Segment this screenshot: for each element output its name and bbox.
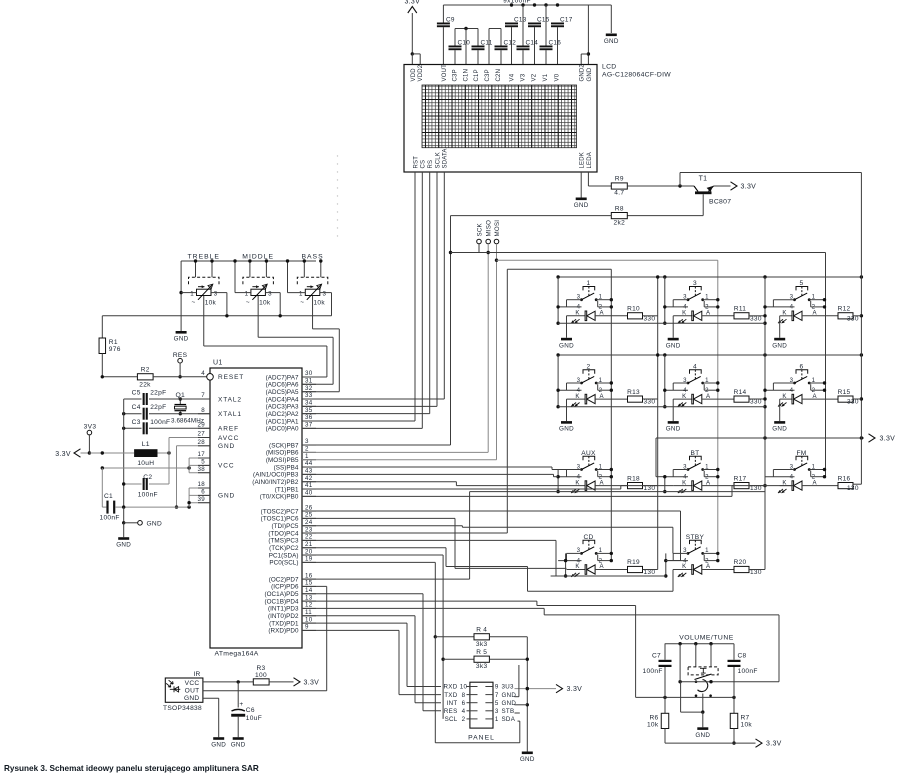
svg-text:17: 17 bbox=[198, 451, 206, 458]
transistor T1 BC807 bbox=[694, 176, 731, 216]
svg-text:TSOP34838: TSOP34838 bbox=[163, 705, 202, 712]
svg-text:30: 30 bbox=[305, 370, 313, 377]
svg-text:18: 18 bbox=[198, 481, 206, 488]
wire AVCC feed bbox=[169, 438, 210, 454]
svg-text:(MOSI)PB5: (MOSI)PB5 bbox=[266, 457, 299, 464]
wire PB7 row bbox=[302, 444, 451, 446]
svg-text:R20: R20 bbox=[734, 559, 747, 566]
ground (C1) bbox=[116, 523, 131, 549]
svg-text:C2: C2 bbox=[143, 474, 152, 481]
svg-text:Rysunek 3. Schemat ideowy pane: Rysunek 3. Schemat ideowy panelu sterują… bbox=[4, 764, 259, 773]
wire row3 left verticals bbox=[556, 438, 765, 493]
wire TREBLE pin1 to GND bbox=[179, 261, 196, 331]
svg-text:GND: GND bbox=[218, 493, 235, 500]
svg-text:~: ~ bbox=[300, 299, 304, 306]
svg-text:(AIN0/INT2)PB2: (AIN0/INT2)PB2 bbox=[252, 479, 299, 486]
svg-text:TREBLE: TREBLE bbox=[188, 253, 220, 260]
svg-text:10uF: 10uF bbox=[246, 715, 262, 722]
svg-text:976: 976 bbox=[109, 346, 121, 353]
svg-text:1: 1 bbox=[495, 716, 499, 723]
pushbutton STBY bbox=[665, 534, 720, 565]
capacitor C7 100nF bbox=[643, 644, 672, 714]
svg-text:130: 130 bbox=[644, 485, 656, 492]
wire R12 R15 to supply column bbox=[853, 316, 861, 399]
svg-text:LCD: LCD bbox=[602, 64, 617, 71]
svg-text:(TCK)PC2: (TCK)PC2 bbox=[269, 545, 299, 552]
capacitor C16 bbox=[540, 5, 562, 65]
svg-text:GND: GND bbox=[574, 202, 589, 209]
wire PC0 SCL net bbox=[302, 562, 520, 742]
svg-text:2: 2 bbox=[462, 716, 466, 723]
wire PC1 SDA net bbox=[302, 555, 445, 719]
svg-text:R1: R1 bbox=[109, 339, 118, 346]
wire pullup riser to 3V3 bbox=[526, 637, 529, 752]
svg-text:GND: GND bbox=[502, 692, 517, 699]
svg-text:3k3: 3k3 bbox=[476, 663, 488, 670]
svg-text:(ADC7)PA7: (ADC7)PA7 bbox=[266, 374, 299, 381]
svg-text:10k: 10k bbox=[647, 722, 659, 729]
wire row1 supply rail bbox=[556, 275, 863, 278]
ground (C6) bbox=[231, 737, 246, 749]
wire R9 to T1 collector node bbox=[627, 184, 694, 187]
wire PD2 to PANEL INT bbox=[302, 616, 441, 703]
capacitor C4 22pF bbox=[122, 404, 210, 420]
pushbutton 2 bbox=[558, 364, 613, 395]
svg-text:V2: V2 bbox=[532, 73, 538, 81]
wire AREF-C3 / GND28 bbox=[175, 446, 210, 509]
wire PANEL STB stub bbox=[515, 712, 520, 714]
svg-text:23: 23 bbox=[305, 526, 313, 533]
wire encoder center to ground bbox=[681, 682, 705, 728]
svg-text:22k: 22k bbox=[139, 382, 151, 389]
svg-text:R16: R16 bbox=[838, 475, 851, 482]
wire LCD GND pins to rail bbox=[581, 5, 590, 65]
wire PC2 to STBY cathode bbox=[302, 548, 691, 591]
svg-text:(TDO)PC4: (TDO)PC4 bbox=[268, 530, 299, 537]
svg-text:C17: C17 bbox=[560, 17, 573, 24]
svg-text:C3P: C3P bbox=[485, 69, 491, 81]
LED BT bbox=[673, 479, 734, 493]
wire decoupling bus bbox=[123, 399, 125, 507]
resistor R14 bbox=[734, 389, 762, 406]
ground (IR GND) bbox=[211, 737, 226, 749]
potentiometer MIDDLE 10k bbox=[242, 253, 274, 306]
svg-text:3.3V: 3.3V bbox=[404, 0, 420, 6]
svg-text:C3P: C3P bbox=[453, 69, 459, 81]
svg-text:31: 31 bbox=[305, 378, 313, 385]
wire MIDDLE pin1 bbox=[233, 259, 251, 292]
svg-text:3: 3 bbox=[214, 291, 218, 298]
svg-text:3V3: 3V3 bbox=[84, 424, 97, 431]
wire BASS pin1 bbox=[286, 259, 306, 292]
svg-text:VOLUME/TUNE: VOLUME/TUNE bbox=[679, 635, 734, 642]
svg-text:VOUT: VOUT bbox=[442, 64, 448, 82]
svg-text:GND: GND bbox=[666, 426, 681, 433]
resistor R19 bbox=[627, 559, 655, 576]
wire col2 LED resistor riser bbox=[749, 316, 765, 570]
svg-text:PC1(SDA): PC1(SDA) bbox=[269, 552, 299, 559]
microcontroller U1 ATmega164A bbox=[207, 360, 302, 658]
ground (LCD backlight) bbox=[574, 198, 589, 210]
svg-text:130: 130 bbox=[750, 485, 762, 492]
svg-text:GND: GND bbox=[695, 732, 710, 739]
svg-text:LEDK: LEDK bbox=[580, 152, 586, 168]
svg-text:12: 12 bbox=[305, 602, 313, 609]
svg-text:8: 8 bbox=[462, 692, 466, 699]
svg-text:AREF: AREF bbox=[218, 426, 239, 433]
svg-text:24: 24 bbox=[305, 519, 313, 526]
wire R8 to PB7 net bbox=[449, 216, 612, 445]
wire row2 bottom rail bbox=[558, 406, 765, 408]
inductor L1 10uH bbox=[134, 441, 171, 467]
svg-text:INT: INT bbox=[447, 700, 458, 707]
svg-text:GND: GND bbox=[772, 426, 787, 433]
svg-text:(INT1)PD3: (INT1)PD3 bbox=[268, 606, 299, 613]
svg-text:1: 1 bbox=[190, 291, 194, 298]
svg-text:330: 330 bbox=[644, 399, 656, 406]
resistor R16 bbox=[838, 475, 859, 492]
U1 right pin labels and numbers bbox=[252, 370, 316, 635]
ground (PANEL) bbox=[520, 752, 535, 764]
svg-text:R14: R14 bbox=[734, 389, 747, 396]
pushbutton AUX bbox=[558, 450, 613, 481]
resistor R2 bbox=[101, 367, 207, 389]
node pot GND rail bbox=[181, 260, 316, 262]
svg-text:100nF: 100nF bbox=[138, 492, 158, 499]
svg-text:C8: C8 bbox=[738, 653, 747, 660]
svg-text:1: 1 bbox=[305, 453, 309, 460]
connector GND bbox=[122, 507, 162, 527]
svg-text:VCC: VCC bbox=[218, 463, 234, 470]
wire col2 row2 left vertical bbox=[663, 355, 666, 408]
svg-text:10uH: 10uH bbox=[137, 460, 154, 467]
wire row2 supply rail bbox=[556, 353, 863, 356]
svg-text:(T0/XCK)PB0: (T0/XCK)PB0 bbox=[260, 494, 299, 501]
svg-text:6: 6 bbox=[201, 489, 205, 496]
wire VCC feed bbox=[101, 458, 210, 473]
svg-text:36: 36 bbox=[305, 414, 313, 421]
svg-text:V3: V3 bbox=[521, 73, 527, 81]
svg-text:26: 26 bbox=[305, 504, 313, 511]
wire LEDA to R9 bbox=[588, 172, 611, 186]
svg-text:20: 20 bbox=[305, 548, 313, 555]
resistor R8 bbox=[611, 205, 627, 226]
svg-text:3.3V: 3.3V bbox=[766, 741, 782, 748]
wire col3 row1 left vertical bbox=[763, 305, 766, 325]
svg-text:130: 130 bbox=[847, 485, 859, 492]
svg-text:C7: C7 bbox=[652, 653, 661, 660]
svg-text:22pF: 22pF bbox=[150, 390, 166, 397]
wire row3 bottom rail bbox=[470, 491, 765, 493]
wire encoder lower row bbox=[636, 696, 736, 699]
wire PC4 to column1 select riser bbox=[302, 532, 507, 534]
pushbutton 1 bbox=[558, 280, 613, 311]
svg-text:~: ~ bbox=[191, 299, 195, 306]
svg-text:AG-C128064CF-DIW: AG-C128064CF-DIW bbox=[602, 72, 671, 79]
wire IR VCC to R3 bbox=[203, 680, 253, 683]
svg-text:3.3V: 3.3V bbox=[741, 184, 757, 191]
LED 1 bbox=[567, 310, 628, 324]
svg-text:330: 330 bbox=[750, 315, 762, 322]
LED AUX bbox=[567, 479, 628, 493]
pushbutton 4 bbox=[665, 364, 720, 395]
svg-text:R8: R8 bbox=[615, 205, 624, 212]
wire PD1 to PANEL RXD bbox=[302, 623, 441, 686]
svg-text:3: 3 bbox=[268, 291, 272, 298]
resistor R17 bbox=[734, 475, 762, 492]
capacitor C9 bbox=[437, 17, 455, 65]
svg-text:(TDI)PC5: (TDI)PC5 bbox=[272, 523, 299, 530]
wire col3 spine bbox=[763, 277, 766, 570]
power 3.3V arrow (PANEL) bbox=[556, 684, 582, 693]
wire 5 cathode to ground bbox=[779, 316, 781, 338]
svg-text:330: 330 bbox=[750, 399, 762, 406]
resistor R11 bbox=[734, 306, 762, 323]
svg-text:4.7: 4.7 bbox=[614, 190, 624, 197]
resistor R13 bbox=[627, 389, 655, 406]
LED 3 bbox=[673, 310, 734, 324]
ground (3) bbox=[666, 338, 681, 350]
svg-text:44: 44 bbox=[305, 460, 313, 467]
resistor R15 bbox=[838, 389, 859, 406]
svg-text:(INT0)PD2: (INT0)PD2 bbox=[268, 613, 299, 620]
svg-text:(SCK)PB7: (SCK)PB7 bbox=[269, 442, 299, 449]
svg-text:10: 10 bbox=[460, 684, 468, 691]
svg-text:GND: GND bbox=[666, 342, 681, 349]
svg-text:STB: STB bbox=[502, 708, 515, 715]
wire LCD SCLK net bbox=[302, 172, 437, 406]
svg-text:C9: C9 bbox=[446, 17, 455, 24]
resistor R6 10k bbox=[647, 713, 669, 743]
svg-text:R 5: R 5 bbox=[476, 649, 487, 656]
wire column3 select bbox=[451, 253, 826, 478]
connector MOSI bbox=[494, 220, 501, 460]
svg-text:10k: 10k bbox=[259, 300, 271, 307]
svg-text:C2N: C2N bbox=[496, 69, 502, 82]
wire LCD RS net bbox=[302, 172, 430, 414]
svg-text:C14: C14 bbox=[526, 40, 539, 47]
svg-text:R19: R19 bbox=[627, 559, 640, 566]
svg-text:(TXD)PD1: (TXD)PD1 bbox=[269, 620, 299, 627]
wire collector node to LED supply rail bbox=[680, 173, 861, 187]
svg-text:PC0(SCL): PC0(SCL) bbox=[269, 560, 298, 567]
capacitor C6 10uF bbox=[231, 682, 262, 737]
wire T1 base to R8 bbox=[627, 215, 703, 217]
svg-text:R6: R6 bbox=[649, 715, 658, 722]
svg-text:V4: V4 bbox=[510, 73, 516, 81]
wire PD0 to PANEL TXD bbox=[302, 630, 441, 694]
wire col1 row2 left vertical bbox=[556, 355, 559, 408]
svg-text:C12: C12 bbox=[504, 40, 517, 47]
wire LED supply column V_A bbox=[853, 173, 863, 485]
label 9x100nF (clipped) bbox=[503, 0, 531, 5]
svg-text:(OC1A)PD5: (OC1A)PD5 bbox=[264, 591, 298, 598]
svg-text:GND: GND bbox=[231, 742, 246, 749]
LED FM bbox=[778, 479, 838, 493]
svg-text:MISO: MISO bbox=[486, 220, 493, 237]
wire PB6 row (MISO) bbox=[302, 451, 488, 453]
svg-text:R17: R17 bbox=[734, 475, 747, 482]
svg-text:R15: R15 bbox=[838, 389, 851, 396]
svg-text:~: ~ bbox=[246, 299, 250, 306]
wire VDD/VDD2 tie bbox=[411, 52, 421, 64]
svg-text:OUT: OUT bbox=[185, 688, 200, 695]
svg-text:GND: GND bbox=[184, 695, 200, 702]
svg-text:15: 15 bbox=[305, 580, 313, 587]
capacitor C5 22pF bbox=[124, 390, 210, 406]
wire PC3 to CD-STBY bottom rail bbox=[302, 540, 566, 576]
svg-text:35: 35 bbox=[305, 407, 313, 414]
svg-text:2k2: 2k2 bbox=[614, 219, 626, 226]
capacitor C1 100nF bbox=[100, 468, 124, 522]
svg-text:GND: GND bbox=[116, 542, 131, 549]
svg-text:C16: C16 bbox=[549, 40, 562, 47]
svg-text:22: 22 bbox=[305, 534, 313, 541]
power 3.3V arrow (button rows) bbox=[869, 434, 896, 443]
potentiometer TREBLE 10k bbox=[188, 253, 220, 306]
svg-text:10k: 10k bbox=[741, 722, 753, 729]
svg-text:BC807: BC807 bbox=[709, 199, 731, 206]
svg-text:(ADC4)PA4: (ADC4)PA4 bbox=[266, 396, 299, 403]
svg-text:(ADC3)PA3: (ADC3)PA3 bbox=[266, 404, 299, 411]
pushbutton BT bbox=[665, 450, 720, 481]
svg-text:RXD: RXD bbox=[444, 684, 458, 691]
svg-text:C1N: C1N bbox=[463, 69, 469, 82]
svg-text:V0: V0 bbox=[555, 73, 561, 81]
LCD module AG-C128064CF-DIW bbox=[404, 64, 671, 173]
svg-text:VDD: VDD bbox=[411, 68, 417, 82]
wire LCD RST net bbox=[302, 172, 415, 421]
capacitor C17 bbox=[551, 17, 573, 65]
svg-text:1: 1 bbox=[245, 291, 249, 298]
svg-text:XTAL1: XTAL1 bbox=[218, 411, 242, 418]
svg-text:(TMS)PC3: (TMS)PC3 bbox=[268, 538, 299, 545]
svg-text:RST: RST bbox=[413, 156, 419, 169]
svg-text:4: 4 bbox=[462, 708, 466, 715]
svg-text:27: 27 bbox=[198, 431, 206, 438]
potentiometer BASS 10k bbox=[297, 253, 328, 306]
connector PANEL bbox=[444, 682, 517, 741]
svg-text:3: 3 bbox=[495, 708, 499, 715]
wire row4 left verticals bbox=[564, 553, 668, 577]
svg-text:16: 16 bbox=[305, 572, 313, 579]
wire encoder pullup 3.3V row bbox=[665, 742, 756, 744]
wire PD6 to IR OUT bbox=[302, 586, 327, 690]
svg-text:100: 100 bbox=[255, 672, 267, 679]
power 3.3V arrow (T1 emitter) bbox=[731, 182, 757, 191]
resistor R4 3k3 bbox=[435, 627, 527, 648]
pushbutton FM bbox=[765, 450, 826, 481]
svg-text:2: 2 bbox=[305, 446, 309, 453]
wire IR OUT row bbox=[203, 690, 327, 692]
wire col2 row1 left vertical bbox=[663, 277, 666, 325]
svg-text:R2: R2 bbox=[141, 367, 150, 374]
svg-text:R7: R7 bbox=[741, 715, 750, 722]
crystal Q1 3.6864MHz bbox=[171, 392, 204, 425]
wire BASS wiper to PA5 bbox=[302, 296, 339, 392]
svg-text:SDA: SDA bbox=[502, 716, 516, 723]
svg-text:(T1)PB1: (T1)PB1 bbox=[275, 486, 299, 493]
resistor R9 bbox=[611, 176, 627, 197]
resistor R7 10k bbox=[730, 713, 752, 745]
svg-text:3.3V: 3.3V bbox=[880, 436, 896, 443]
capacitor C14 bbox=[517, 5, 539, 65]
capacitor C3 100nF bbox=[122, 419, 210, 435]
wire row4 bottom rail CD-STBY bbox=[551, 575, 666, 577]
wire PB0 to FM cathode bbox=[302, 486, 793, 497]
LED 2 bbox=[567, 393, 628, 407]
wire LCD CS net bbox=[302, 172, 422, 428]
svg-text:(ADC0)PA0: (ADC0)PA0 bbox=[266, 426, 299, 433]
wire row1 bottom rail bbox=[558, 322, 765, 324]
svg-text:SCL: SCL bbox=[445, 716, 458, 723]
node cap-bank top rail bbox=[443, 3, 611, 33]
svg-text:GND: GND bbox=[218, 443, 235, 450]
svg-text:C5: C5 bbox=[132, 390, 141, 397]
svg-text:GND2: GND2 bbox=[580, 64, 586, 82]
wire 6 cathode to ground bbox=[779, 399, 781, 421]
capacitor C13 bbox=[505, 17, 527, 65]
wire charge-pump segment A bbox=[455, 27, 478, 65]
wire column2 select bbox=[497, 260, 718, 560]
svg-text:ATmega164A: ATmega164A bbox=[215, 650, 259, 657]
svg-text:GND: GND bbox=[174, 336, 189, 343]
svg-text:1: 1 bbox=[299, 291, 303, 298]
svg-text:C10: C10 bbox=[458, 40, 471, 47]
wire GND bus to MCU bbox=[122, 488, 210, 509]
svg-text:9x100nF: 9x100nF bbox=[503, 0, 531, 5]
svg-text:(RXD)PD0: (RXD)PD0 bbox=[268, 628, 299, 635]
wire PB1 to BT cathode bbox=[302, 486, 673, 489]
resistor R20 bbox=[734, 559, 762, 576]
svg-text:GND: GND bbox=[559, 342, 574, 349]
ground (cap bank) bbox=[604, 34, 619, 46]
svg-text:10k: 10k bbox=[314, 300, 326, 307]
svg-text:(ICP)PD6: (ICP)PD6 bbox=[271, 584, 299, 591]
resistor R1 bbox=[99, 316, 121, 377]
wire PANEL GND pins bbox=[515, 665, 528, 705]
connector MISO bbox=[486, 220, 493, 452]
svg-text:37: 37 bbox=[305, 422, 313, 429]
svg-text:330: 330 bbox=[847, 399, 859, 406]
svg-text:100nF: 100nF bbox=[738, 668, 758, 675]
svg-text:R13: R13 bbox=[627, 389, 640, 396]
svg-text:3: 3 bbox=[323, 291, 327, 298]
svg-text:GND: GND bbox=[147, 521, 163, 528]
svg-text:3.3V: 3.3V bbox=[55, 451, 71, 458]
svg-text:C11: C11 bbox=[481, 40, 493, 47]
svg-text:22pF: 22pF bbox=[150, 404, 166, 411]
wire PANEL 3V3 row bbox=[515, 687, 557, 690]
connector SCK bbox=[476, 223, 483, 253]
svg-text:14: 14 bbox=[305, 587, 313, 594]
svg-text:AVCC: AVCC bbox=[218, 435, 239, 442]
svg-text:RES: RES bbox=[173, 352, 188, 359]
svg-text:3: 3 bbox=[305, 438, 309, 445]
IR receiver TSOP34838 bbox=[163, 671, 203, 712]
power 3.3V arrow (LCD VDD) bbox=[404, 0, 420, 54]
svg-text:V1: V1 bbox=[543, 73, 549, 81]
ground (1) bbox=[559, 338, 574, 350]
wire PD5 to PANEL RES bbox=[302, 594, 441, 711]
power 3.3V arrow (encoder) bbox=[756, 739, 782, 748]
svg-text:3.3V: 3.3V bbox=[304, 679, 320, 686]
svg-text:28: 28 bbox=[198, 439, 206, 446]
svg-text:PANEL: PANEL bbox=[468, 735, 495, 742]
svg-text:MIDDLE: MIDDLE bbox=[242, 253, 274, 260]
node alignment dots bbox=[337, 155, 338, 236]
svg-text:GND: GND bbox=[211, 742, 226, 749]
